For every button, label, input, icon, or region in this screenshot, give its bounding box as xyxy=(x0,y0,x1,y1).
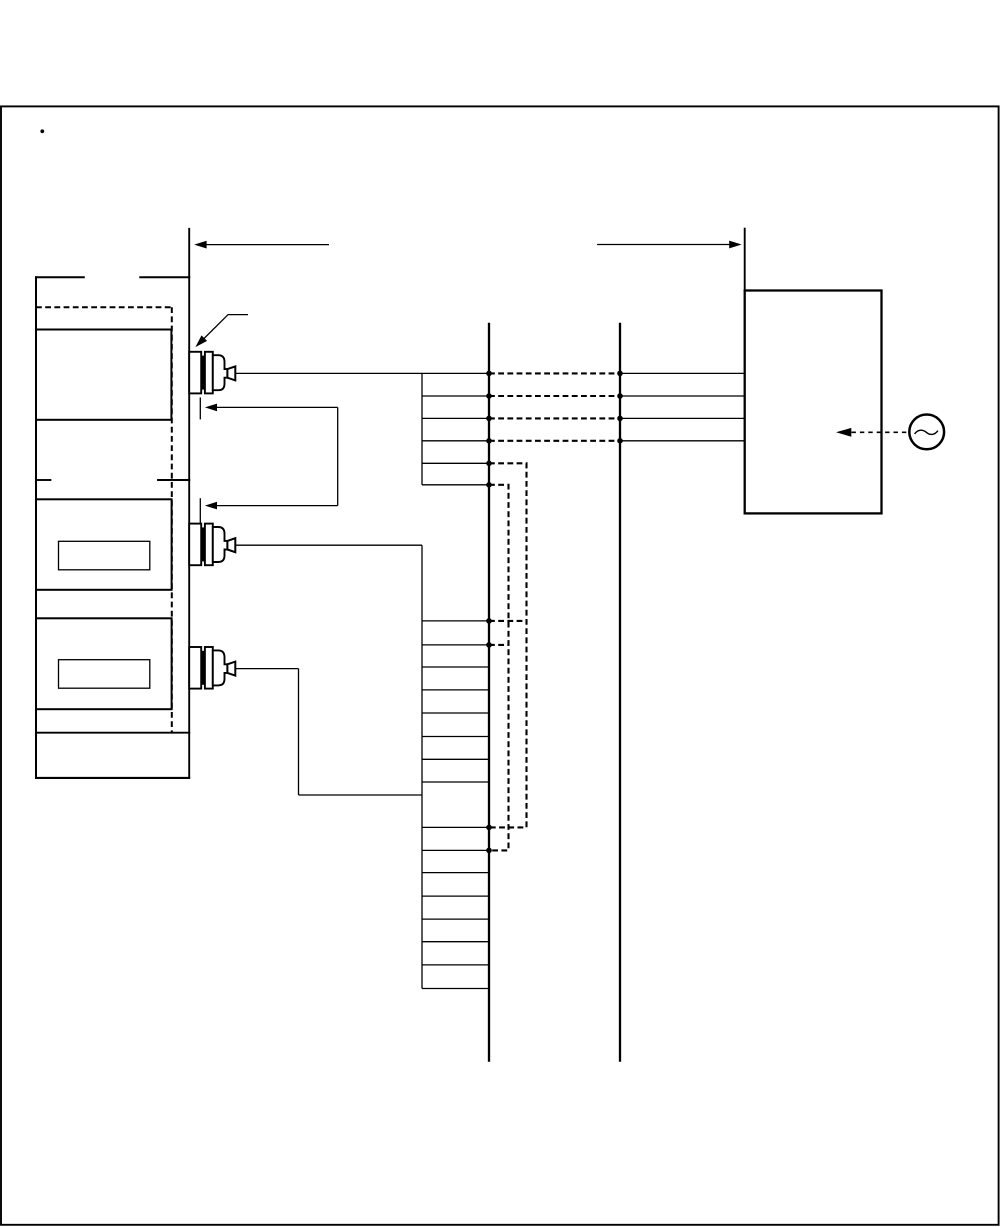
connector J3 xyxy=(189,647,235,689)
junction dot bus2 y=373.4 xyxy=(617,371,623,377)
junction dot bus1 y=418.4 xyxy=(486,416,492,422)
lower breaker rail xyxy=(421,545,423,988)
AC source dashed feed arrow xyxy=(836,428,909,437)
lower breaker rung 11 xyxy=(422,872,489,874)
lower breaker rung 16 xyxy=(422,988,489,990)
lower breaker rung 13 xyxy=(422,918,489,920)
upper breaker rung 4 xyxy=(422,440,489,442)
wire W3 from J3 horizontal run xyxy=(235,668,298,670)
lower breaker rung 1 xyxy=(422,620,489,622)
feed wire 3 bus2 to junction box xyxy=(620,417,745,419)
lower breaker rung 10 xyxy=(422,849,489,851)
junction dot bus1 y=373.4 xyxy=(486,371,492,377)
feed wire 1 bus2 to junction box xyxy=(620,372,745,374)
unit box 2 faceplate window xyxy=(59,541,150,570)
upper breaker rung 3 xyxy=(422,417,489,419)
rack shelf line with gap, right tick xyxy=(157,479,190,481)
rack shelf line with gap, left tick xyxy=(36,479,51,481)
unit box 3 faceplate window xyxy=(59,660,150,689)
junction dot bus1 y=620.9 xyxy=(486,618,492,624)
unit box 2 (middle) xyxy=(36,499,172,590)
junction dot bus1 y=396.0 xyxy=(486,393,492,399)
lower breaker rung 12 xyxy=(422,895,489,897)
callout arrow lower (points at stub tick above J2) xyxy=(205,502,338,510)
rack top edge left segment xyxy=(35,276,85,278)
lower breaker rung 4 xyxy=(422,689,489,691)
dashed tap at 620.9 xyxy=(489,620,527,622)
dashed jumper 1 bus1 to bus2 xyxy=(489,372,620,374)
bus bar 2 xyxy=(619,323,621,1062)
dashed liner top edge xyxy=(36,306,172,308)
unit box 3 (bottom) xyxy=(36,618,172,709)
stub tick below J1 xyxy=(199,397,201,419)
wire W3 run to breaker rail xyxy=(299,794,423,796)
bus bar 1 xyxy=(488,323,490,1062)
bulkhead line (left) xyxy=(188,228,190,778)
junction box xyxy=(745,291,882,514)
leader arrow to connector J1 xyxy=(195,315,248,348)
junction dot bus2 y=440.8 xyxy=(617,438,623,444)
junction dot bus1 y=440.8 xyxy=(486,438,492,444)
list bullet xyxy=(40,129,44,133)
boundary line (right) above junction box xyxy=(744,228,746,292)
rack lower shelf line xyxy=(36,732,190,734)
lower breaker rung 15 xyxy=(422,964,489,966)
unit box 1 (top) xyxy=(36,330,171,420)
dashed liner right edge xyxy=(171,307,173,732)
wire W1 from J1 to bus 1 xyxy=(235,372,489,374)
junction dot bus1 y=463.3 xyxy=(486,461,492,467)
junction dot bus1 y=850.4 xyxy=(486,848,492,854)
lower breaker rung 8 xyxy=(422,781,489,783)
lower breaker rung 3 xyxy=(422,666,489,668)
rack left edge xyxy=(35,276,37,778)
lower breaker rung 6 xyxy=(422,736,489,738)
dashed hook A (outer) xyxy=(489,463,527,827)
lower breaker rung 2 xyxy=(422,644,489,646)
dimension arrow left (cockpit side) xyxy=(194,241,329,249)
dashed hook B (inner) xyxy=(489,485,509,851)
callout arrow upper (points at stub tick) xyxy=(205,404,338,412)
lower breaker rung 7 xyxy=(422,758,489,760)
upper breaker rung 2 xyxy=(422,395,489,397)
rack top edge right segment xyxy=(139,276,190,278)
junction dot bus2 y=396.0 xyxy=(617,393,623,399)
wire W2 from J2 to breaker rail xyxy=(235,544,422,546)
rack bottom edge xyxy=(35,777,190,779)
lower breaker rung 5 xyxy=(422,712,489,714)
lower breaker rung 14 xyxy=(422,941,489,943)
stub tick above J2 xyxy=(199,498,201,523)
dimension arrow right (cabin side) xyxy=(597,241,742,249)
lower breaker rung 9 xyxy=(422,826,489,828)
connector J2 xyxy=(189,524,235,566)
feed wire 4 bus2 to junction box xyxy=(620,440,745,442)
junction dot bus2 y=418.4 xyxy=(617,416,623,422)
connector J1 xyxy=(189,352,235,394)
upper breaker rung 5 xyxy=(422,462,489,464)
callout loop right side xyxy=(337,407,339,505)
wire W3 vertical drop xyxy=(298,669,300,795)
feed wire 2 bus2 to junction box xyxy=(620,395,745,397)
junction dot bus1 y=484.8 xyxy=(486,482,492,488)
junction dot bus1 y=644.9 xyxy=(486,642,492,648)
junction dot bus1 y=827.4 xyxy=(486,825,492,831)
upper breaker rail xyxy=(421,373,423,484)
dashed jumper 2 bus1 to bus2 xyxy=(489,395,620,397)
dashed jumper 3 bus1 to bus2 xyxy=(489,417,620,419)
AC source symbol xyxy=(909,415,944,450)
upper breaker rung 6 xyxy=(422,484,489,486)
dashed jumper 4 bus1 to bus2 xyxy=(489,440,620,442)
dashed tap at 644.9 xyxy=(489,644,509,646)
